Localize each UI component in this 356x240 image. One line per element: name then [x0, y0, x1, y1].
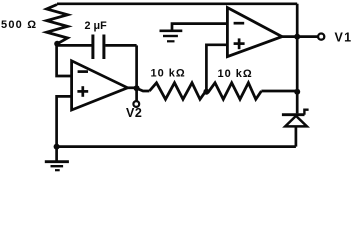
svg-text:500 Ω: 500 Ω — [1, 19, 37, 31]
svg-text:V1: V1 — [335, 30, 353, 44]
svg-text:10 kΩ: 10 kΩ — [151, 68, 186, 80]
svg-text:V2: V2 — [126, 106, 143, 120]
svg-text:2 μF: 2 μF — [85, 20, 108, 32]
svg-text:10 kΩ: 10 kΩ — [218, 68, 253, 80]
